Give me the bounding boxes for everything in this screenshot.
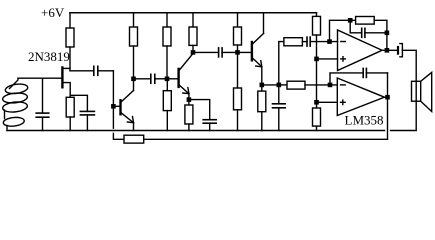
resistor R15 (divider lower): [313, 108, 321, 131]
resistor R5 (bias upper): [163, 13, 171, 79]
node M (feedback cap right): [385, 31, 390, 36]
wire riser to U1a input: [279, 42, 284, 85]
transistor Q3 (NPN): [167, 52, 193, 99]
resistor R11 (Q4 emitter): [258, 85, 266, 131]
resistor R9 (Q4 bias upper): [234, 13, 242, 88]
resistor R16 (U1a feedback): [356, 17, 375, 25]
capacitor C11 (U1b feedback): [330, 68, 388, 85]
capacitor C1 (tank): [36, 78, 49, 130]
node A (Q2 base junction): [111, 104, 116, 109]
node K (U1a inverting input): [327, 39, 332, 44]
wire U1a + input: [317, 58, 338, 60]
node C (Q3 base): [165, 77, 170, 82]
resistor R14 (divider upper): [313, 13, 321, 108]
resistor R3 (Q2 collector load): [130, 13, 138, 79]
loudspeaker LS1: [391, 72, 432, 130]
resistor R6 (bias lower): [163, 79, 171, 131]
capacitor C8 (to U1a inverting input): [307, 37, 338, 46]
node B (Q2 collector / C4): [131, 77, 136, 82]
wire feedback drop from node A (gap at ground rail): [113, 106, 124, 139]
node D (Q3 emitter): [187, 97, 192, 102]
node L (feedback branch): [348, 18, 353, 23]
resistor R10 (Q4 bias lower): [234, 88, 242, 131]
svg-text:2N3819: 2N3819: [28, 49, 70, 64]
wire top +6V rail: [70, 12, 317, 14]
capacitor C4 (coupling): [134, 74, 168, 83]
transistor Q2 (NPN): [113, 79, 133, 131]
svg-text:+6V: +6V: [41, 5, 65, 20]
coil L1 (search coil): [2, 78, 28, 127]
capacitor C5 (emitter bypass): [189, 100, 216, 131]
node E (Q3 collector / C6): [191, 50, 196, 55]
wire coil bottom lead: [6, 126, 8, 131]
capacitor C6 (coupling): [193, 48, 238, 57]
capacitor C9 (U1a feedback): [350, 20, 387, 37]
transistor Q4 (NPN emitter follower): [238, 13, 264, 85]
wire U1a output: [382, 49, 397, 51]
capacitor C3 (source bypass): [70, 95, 94, 130]
node N (U1a output): [385, 48, 390, 53]
op-amp U1a: [338, 30, 383, 71]
wire ground rail: [7, 130, 385, 132]
resistor R8 (Q3 collector load): [189, 13, 197, 53]
transistor Q1 2N3819 JFET: [18, 68, 70, 96]
capacitor C2 (coupling, drain to Q2 base): [70, 66, 113, 106]
op-amp U1b: [337, 78, 384, 116]
wire U1b + input: [317, 101, 338, 103]
node G (Q4 emitter / R11): [260, 83, 265, 88]
wire U1b output drop to feedback line: [385, 73, 388, 139]
resistor R12 (to U1a inverting input): [284, 38, 307, 46]
svg-text:LM358: LM358: [345, 113, 384, 128]
resistor R1 (drain load): [66, 13, 74, 71]
node F (Q4 base): [235, 50, 240, 55]
wire U1a feedback loop: [330, 20, 387, 50]
wire emitter node link: [262, 84, 279, 86]
resistor R2 (source resistor): [66, 95, 74, 130]
node O (U1b inverting input): [328, 83, 333, 88]
node J (U1b + bias): [314, 100, 319, 105]
capacitor C7 (node filter): [273, 85, 286, 131]
node P (U1b output): [385, 95, 390, 100]
resistor R7 (Q3 emitter): [185, 100, 193, 131]
resistor R13 (to U1b inverting input): [279, 81, 338, 89]
node H (signal tap): [277, 83, 282, 88]
capacitor C10 (output coupling, polarized): [397, 44, 416, 82]
node I (U1a + bias): [314, 57, 319, 62]
resistor R4 (feedback, bottom): [124, 135, 388, 143]
